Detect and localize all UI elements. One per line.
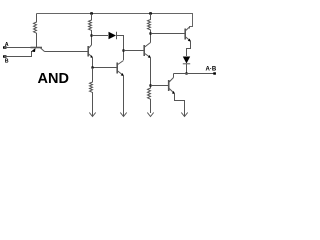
svg-text:A: A — [5, 42, 9, 48]
transistor Q4 — [144, 43, 151, 59]
ground arrow at R4 — [147, 113, 153, 117]
ground arrow at R5 — [89, 113, 95, 117]
node dot rail-R2 — [90, 12, 93, 15]
wire Q4 emitter down to node — [150, 58, 152, 86]
wire Q5 emitter to D2 — [187, 41, 191, 56]
wire D2 to output node — [186, 64, 188, 74]
wire Q6 base lead — [151, 85, 169, 87]
resistor R3 — [148, 14, 151, 34]
input terminal B — [3, 55, 7, 57]
wire input B — [4, 51, 32, 57]
node dot D1 line - Q4 base — [122, 49, 124, 51]
wire Q4 base lead — [124, 50, 144, 52]
input terminal A — [3, 46, 7, 48]
svg-text:A·B: A·B — [206, 67, 217, 73]
ground arrow at Q3 emitter — [120, 113, 126, 117]
node dot R2-D1 — [90, 34, 92, 36]
svg-text:AND: AND — [38, 71, 69, 87]
wire D1 cathode down to Q3 collector — [117, 36, 124, 61]
transistor Q3 — [117, 61, 124, 77]
resistor R5 — [90, 68, 93, 117]
wire Q6 emitter to ground — [175, 94, 185, 117]
wire VCC top rail — [37, 14, 193, 29]
transistor Q1 multi-emitter input — [31, 48, 45, 53]
diode D1 — [109, 32, 117, 39]
resistor R2 — [89, 14, 92, 36]
wire input A — [4, 47, 31, 49]
node dot Q2 emitter / R5 — [91, 66, 93, 68]
output terminal dot — [213, 72, 216, 74]
wire Q2 emitter to Q3 base — [93, 58, 117, 68]
node dot rail-R3 — [149, 12, 152, 15]
transistor Q6 output low driver — [169, 78, 175, 95]
wire Q2 collector to node R2 — [91, 36, 93, 46]
transistor Q2 phase splitter — [88, 45, 93, 58]
ground arrow at Q6 emitter — [181, 113, 187, 117]
wire node R3 to Q5 base — [151, 33, 185, 35]
transistor Q5 output high driver — [185, 27, 191, 42]
resistor R4 — [148, 86, 151, 114]
resistor R1 — [34, 14, 37, 48]
node dot R3 — [149, 32, 151, 34]
diode D2 — [183, 57, 190, 64]
wire Q3 emitter to ground — [123, 76, 125, 117]
wire output line — [174, 73, 216, 75]
wire Q1 collector to Q2 base — [45, 51, 88, 53]
node dot Q4 emitter / R4 / Q6 base — [149, 84, 151, 86]
svg-text:B: B — [5, 59, 9, 65]
wire Q6 collector to output line — [173, 74, 175, 78]
wire Q4 collector to node R3 — [150, 34, 152, 43]
wire node to D1 — [92, 35, 109, 37]
node dot output — [185, 72, 187, 74]
